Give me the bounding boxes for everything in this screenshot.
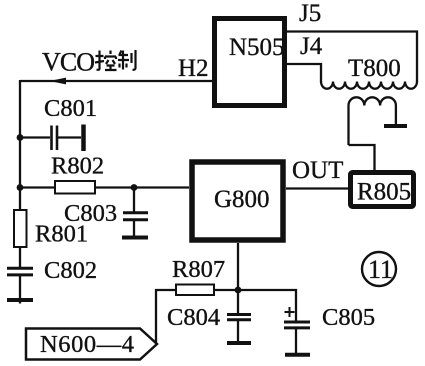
- wire J5 (N505 to T800 right end): [287, 32, 417, 83]
- svg-text:J4: J4: [300, 33, 323, 60]
- arrow on VCO wire (pointing left): [50, 78, 67, 85]
- wire R807 to node: [214, 289, 238, 291]
- IC N505: [215, 19, 285, 106]
- wire G800 bottom to node: [237, 243, 239, 290]
- svg-text:R802: R802: [51, 153, 104, 180]
- transformer T800 primary winding: [321, 82, 417, 89]
- wire R802 row (bus to G800): [20, 186, 189, 188]
- wire N600-4 to R807: [156, 290, 176, 345]
- svg-text:C802: C802: [44, 257, 97, 284]
- resistor R805 (boxed): [351, 173, 414, 207]
- svg-text:J5: J5: [299, 0, 321, 27]
- wire R801 to C802: [19, 247, 21, 267]
- wire OUT (G800 to R805): [286, 187, 350, 189]
- svg-text:R807: R807: [172, 256, 225, 283]
- svg-text:C804: C804: [167, 304, 220, 331]
- capacitor C801: [20, 125, 84, 152]
- wire secondary to R805: [349, 145, 375, 170]
- svg-text:R805: R805: [357, 179, 411, 206]
- svg-text:C801: C801: [44, 95, 97, 122]
- svg-text:N600—4: N600—4: [40, 331, 134, 358]
- svg-text:11: 11: [368, 255, 393, 284]
- resistor R802: [55, 181, 95, 194]
- svg-text:T800: T800: [348, 55, 401, 82]
- capacitor C802: [7, 268, 33, 303]
- wire left vertical bus: [19, 80, 21, 211]
- svg-text:OUT: OUT: [292, 157, 343, 184]
- svg-text:N505: N505: [229, 34, 285, 61]
- resistor R807: [176, 285, 214, 296]
- IC G800: [192, 162, 283, 240]
- ground (T800 secondary): [384, 124, 407, 128]
- page ref 11 (circled): [362, 252, 396, 286]
- svg-text:R801: R801: [35, 221, 88, 248]
- svg-text:H2: H2: [178, 55, 209, 82]
- junction dot (bus / R802 wire): [17, 184, 24, 191]
- wire VCO control / H2 horizontal: [20, 80, 212, 82]
- junction dot (bus / C801): [17, 134, 24, 141]
- junction dot (wire / C803): [131, 184, 138, 191]
- resistor R801: [14, 210, 27, 247]
- connector N600-4 flag: [26, 329, 157, 360]
- capacitor C805 (electrolytic +): [284, 307, 310, 355]
- capacitor C804: [227, 290, 251, 343]
- svg-text:VCO: VCO: [42, 48, 95, 77]
- wire node to C805: [238, 290, 296, 321]
- capacitor C803: [122, 188, 148, 238]
- transformer T800 secondary winding: [349, 97, 396, 145]
- wire J4 (N505 to T800 left end): [287, 64, 321, 82]
- label VCO控制: [42, 48, 136, 77]
- svg-text:C805: C805: [322, 304, 375, 331]
- junction dot (G800 / R807 / C804 / C805): [235, 287, 242, 294]
- svg-text:G800: G800: [214, 186, 270, 213]
